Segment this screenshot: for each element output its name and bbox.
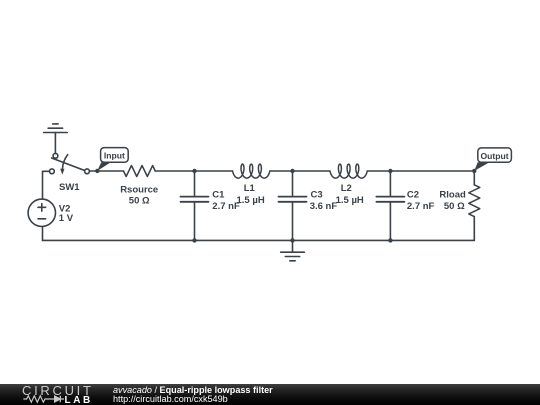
net label Output bbox=[472, 148, 511, 173]
svg-text:C2: C2 bbox=[407, 190, 419, 201]
svg-text:Output: Output bbox=[481, 151, 509, 161]
svg-text:L2: L2 bbox=[341, 183, 352, 194]
inductor L1 bbox=[233, 164, 270, 178]
node junction dot C1 bottom bbox=[192, 238, 196, 242]
label V2 1 V bbox=[59, 203, 74, 224]
wire L1 to node B bbox=[270, 170, 330, 172]
wire SW1 right terminal to Rsource bbox=[89, 170, 123, 172]
svg-text:2.7 nF: 2.7 nF bbox=[407, 201, 435, 212]
label L1 1.5 uH bbox=[237, 183, 265, 206]
node junction dot C2 bottom bbox=[388, 238, 392, 242]
wire V2 - to bottom rail bbox=[42, 227, 44, 241]
wire L2 to Rload top bbox=[367, 171, 474, 185]
capacitor C2 bbox=[376, 171, 404, 240]
ground (bottom-middle) bbox=[281, 240, 305, 260]
node junction dot C3 bottom bbox=[290, 238, 294, 242]
wire SW1 left terminal to V2 + bbox=[43, 171, 50, 199]
label C1 2.7 nF bbox=[212, 190, 240, 212]
svg-text:Rload: Rload bbox=[439, 190, 466, 201]
svg-text:LAB: LAB bbox=[65, 395, 93, 404]
resistor Rsource bbox=[124, 166, 156, 177]
node A junction dot (top of C1) bbox=[192, 169, 196, 173]
ground (top-left, pointing up) bbox=[44, 124, 68, 133]
svg-text:1.5 µH: 1.5 µH bbox=[237, 195, 265, 206]
label Rload 50 ohm bbox=[439, 190, 466, 212]
svg-text:1.5 µH: 1.5 µH bbox=[336, 195, 364, 206]
svg-text:3.6 nF: 3.6 nF bbox=[310, 201, 338, 212]
switch SW1 bbox=[50, 153, 90, 174]
net label Input bbox=[97, 148, 128, 171]
node B junction dot (top of C3) bbox=[290, 169, 294, 173]
footer bar bbox=[0, 384, 540, 405]
label Rsource 50 ohm bbox=[120, 185, 158, 207]
label L2 1.5 uH bbox=[336, 183, 364, 206]
wire Rload bottom to bottom rail bbox=[473, 217, 475, 241]
svg-text:50 Ω: 50 Ω bbox=[129, 195, 150, 206]
wire ground to SW1 top terminal bbox=[54, 133, 56, 154]
node C junction dot (top of C2) bbox=[388, 169, 392, 173]
label C3 3.6 nF bbox=[310, 190, 338, 212]
svg-text:C3: C3 bbox=[311, 190, 323, 201]
inductor L2 bbox=[330, 164, 367, 178]
voltage source V2 bbox=[28, 199, 55, 226]
svg-text:C1: C1 bbox=[212, 190, 225, 201]
svg-text:Input: Input bbox=[104, 151, 125, 161]
wire bottom rail bbox=[43, 239, 475, 241]
svg-text:Rsource: Rsource bbox=[120, 185, 158, 196]
footer info text bbox=[113, 386, 273, 404]
svg-text:1 V: 1 V bbox=[59, 213, 74, 224]
svg-text:50 Ω: 50 Ω bbox=[444, 201, 465, 212]
resistor Rload bbox=[469, 185, 480, 217]
CircuitLab logo bbox=[22, 385, 114, 404]
wire Rsource to node A bbox=[155, 170, 232, 172]
capacitor C1 bbox=[181, 171, 209, 240]
svg-text:L1: L1 bbox=[244, 183, 256, 194]
label C2 2.7 nF bbox=[407, 190, 435, 212]
svg-text:SW1: SW1 bbox=[59, 182, 80, 193]
node Input junction dot bbox=[95, 169, 99, 173]
capacitor C3 bbox=[279, 171, 307, 240]
